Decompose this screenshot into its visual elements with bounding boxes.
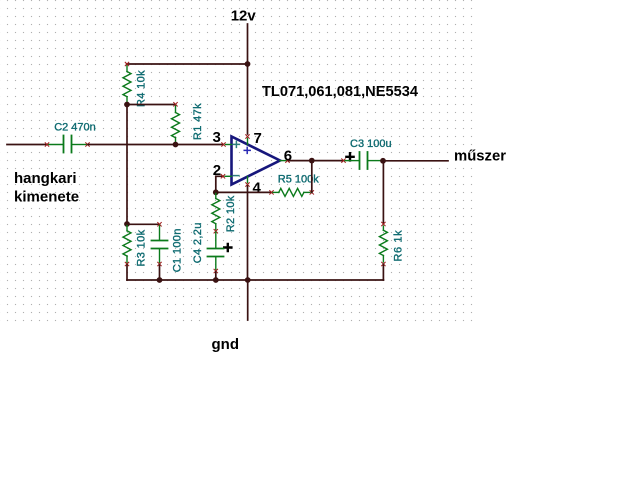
pin mark C3 left [342, 159, 346, 163]
pin mark C2 right [86, 143, 90, 147]
capacitor C3 100u [345, 152, 381, 169]
op-amp pin3 lead [226, 144, 232, 146]
svg-text:R6 1k: R6 1k [392, 230, 404, 262]
svg-text:3: 3 [213, 129, 221, 146]
svg-text:gnd: gnd [212, 336, 240, 353]
wire left bias vertical [126, 105, 128, 225]
svg-text:6: 6 [284, 147, 292, 164]
wire bottom rail [127, 279, 383, 281]
wire signal to pin3 [88, 144, 223, 146]
wire input segment [7, 144, 47, 146]
junction output feedback tap [309, 158, 315, 164]
wire C4 bottom to rail [215, 272, 217, 280]
junction output R6 tap [380, 158, 386, 164]
svg-text:műszer: műszer [454, 148, 506, 165]
svg-text:TL071,061,081,NE5534: TL071,061,081,NE5534 [262, 83, 419, 100]
op-amp U1 triangle [232, 137, 281, 185]
capacitor C1 100n [152, 226, 168, 263]
pin mark C2 left [45, 143, 49, 147]
pin mark C1 bottom [158, 262, 162, 266]
wire pin2 corner down [215, 176, 217, 192]
pin mark R1 top [174, 103, 178, 107]
resistor R6 1k [379, 226, 387, 262]
wire R6 bottom to rail [382, 265, 384, 281]
resistor R5 100k [273, 188, 310, 196]
pin mark op-amp pin7 [246, 135, 250, 139]
op-amp pin2 lead [225, 175, 232, 177]
capacitor C4 2,2u polarity plus [224, 244, 231, 251]
svg-text:R4 10k: R4 10k [136, 70, 148, 107]
wire node to C1 top [127, 223, 160, 225]
wire R3 bottom to rail [126, 265, 128, 280]
junction bias lower node [124, 221, 130, 227]
op-amp inverting minus marker [233, 175, 239, 177]
junction gnd on rail [245, 277, 251, 283]
svg-text:4: 4 [253, 180, 262, 197]
wire output to muszer [383, 160, 448, 162]
pin mark R6 bottom [382, 262, 386, 266]
resistor R3 10k [123, 226, 131, 263]
pin mark op-amp pin2 [221, 175, 225, 179]
junction C1 on rail [157, 277, 163, 283]
pin mark R5 right [310, 191, 314, 195]
op-amp noninverting plus marker [233, 141, 239, 147]
op-amp pin4 lead [247, 177, 249, 183]
wire node to R1 top [127, 104, 176, 106]
wire pin7 drop from rail [247, 64, 249, 134]
junction C4 on rail [213, 277, 219, 283]
pin mark R3 bottom [125, 262, 129, 266]
pin mark op-amp pin6 [286, 159, 290, 163]
pin mark op-amp pin3 [222, 143, 226, 147]
wire pin6 to C3 [289, 160, 343, 162]
svg-text:kimenete: kimenete [14, 189, 79, 206]
op-amp pin7 lead [247, 138, 249, 144]
junction R1 bottom on signal wire [173, 142, 179, 148]
capacitor C3 100u polarity plus [346, 153, 353, 160]
svg-text:C1 100n: C1 100n [172, 228, 184, 272]
junction R4 bottom node [124, 102, 130, 108]
svg-text:R5 100k: R5 100k [278, 173, 319, 185]
junction feedback node [213, 189, 219, 195]
pin mark C1 top [158, 223, 162, 227]
op-amp pin6 lead [280, 160, 286, 162]
wire feedback node to R5 [216, 191, 272, 193]
wire R6 top from output node [382, 161, 384, 223]
svg-text:R3 10k: R3 10k [136, 229, 148, 266]
pin mark C4 bottom [214, 269, 218, 273]
pin mark R5 left [270, 191, 274, 195]
wire R5 right up to output [311, 161, 313, 193]
wire pin2 horizontal [216, 175, 223, 177]
svg-text:hangkari: hangkari [14, 170, 77, 187]
capacitor C2 470n [48, 136, 87, 153]
svg-text:C4 2,2u: C4 2,2u [192, 222, 204, 263]
pin mark op-amp pin4 [246, 183, 250, 187]
pin mark R6 top [382, 222, 386, 226]
op-amp supply plus marker [244, 147, 250, 153]
svg-text:C3 100u: C3 100u [350, 138, 392, 150]
wire gnd stub [247, 280, 249, 320]
svg-text:C2 470n: C2 470n [54, 122, 96, 134]
svg-text:R1 47k: R1 47k [192, 103, 204, 140]
svg-text:7: 7 [254, 130, 262, 147]
capacitor C4 2,2u [208, 232, 224, 270]
wire C1 bottom to rail [159, 265, 161, 280]
resistor R2 10k [212, 194, 220, 230]
resistor R4 10k [123, 66, 131, 104]
pin mark R2 bottom [214, 229, 218, 233]
svg-text:R2 10k: R2 10k [225, 195, 237, 232]
wire 12v supply stub [247, 24, 249, 64]
junction top rail / supply [245, 61, 251, 67]
wire top rail [127, 63, 248, 65]
pin mark R4 top [125, 62, 129, 66]
svg-text:12v: 12v [231, 8, 257, 25]
wire pin4 to ground rail [247, 186, 249, 280]
resistor R1 47k [172, 106, 180, 143]
